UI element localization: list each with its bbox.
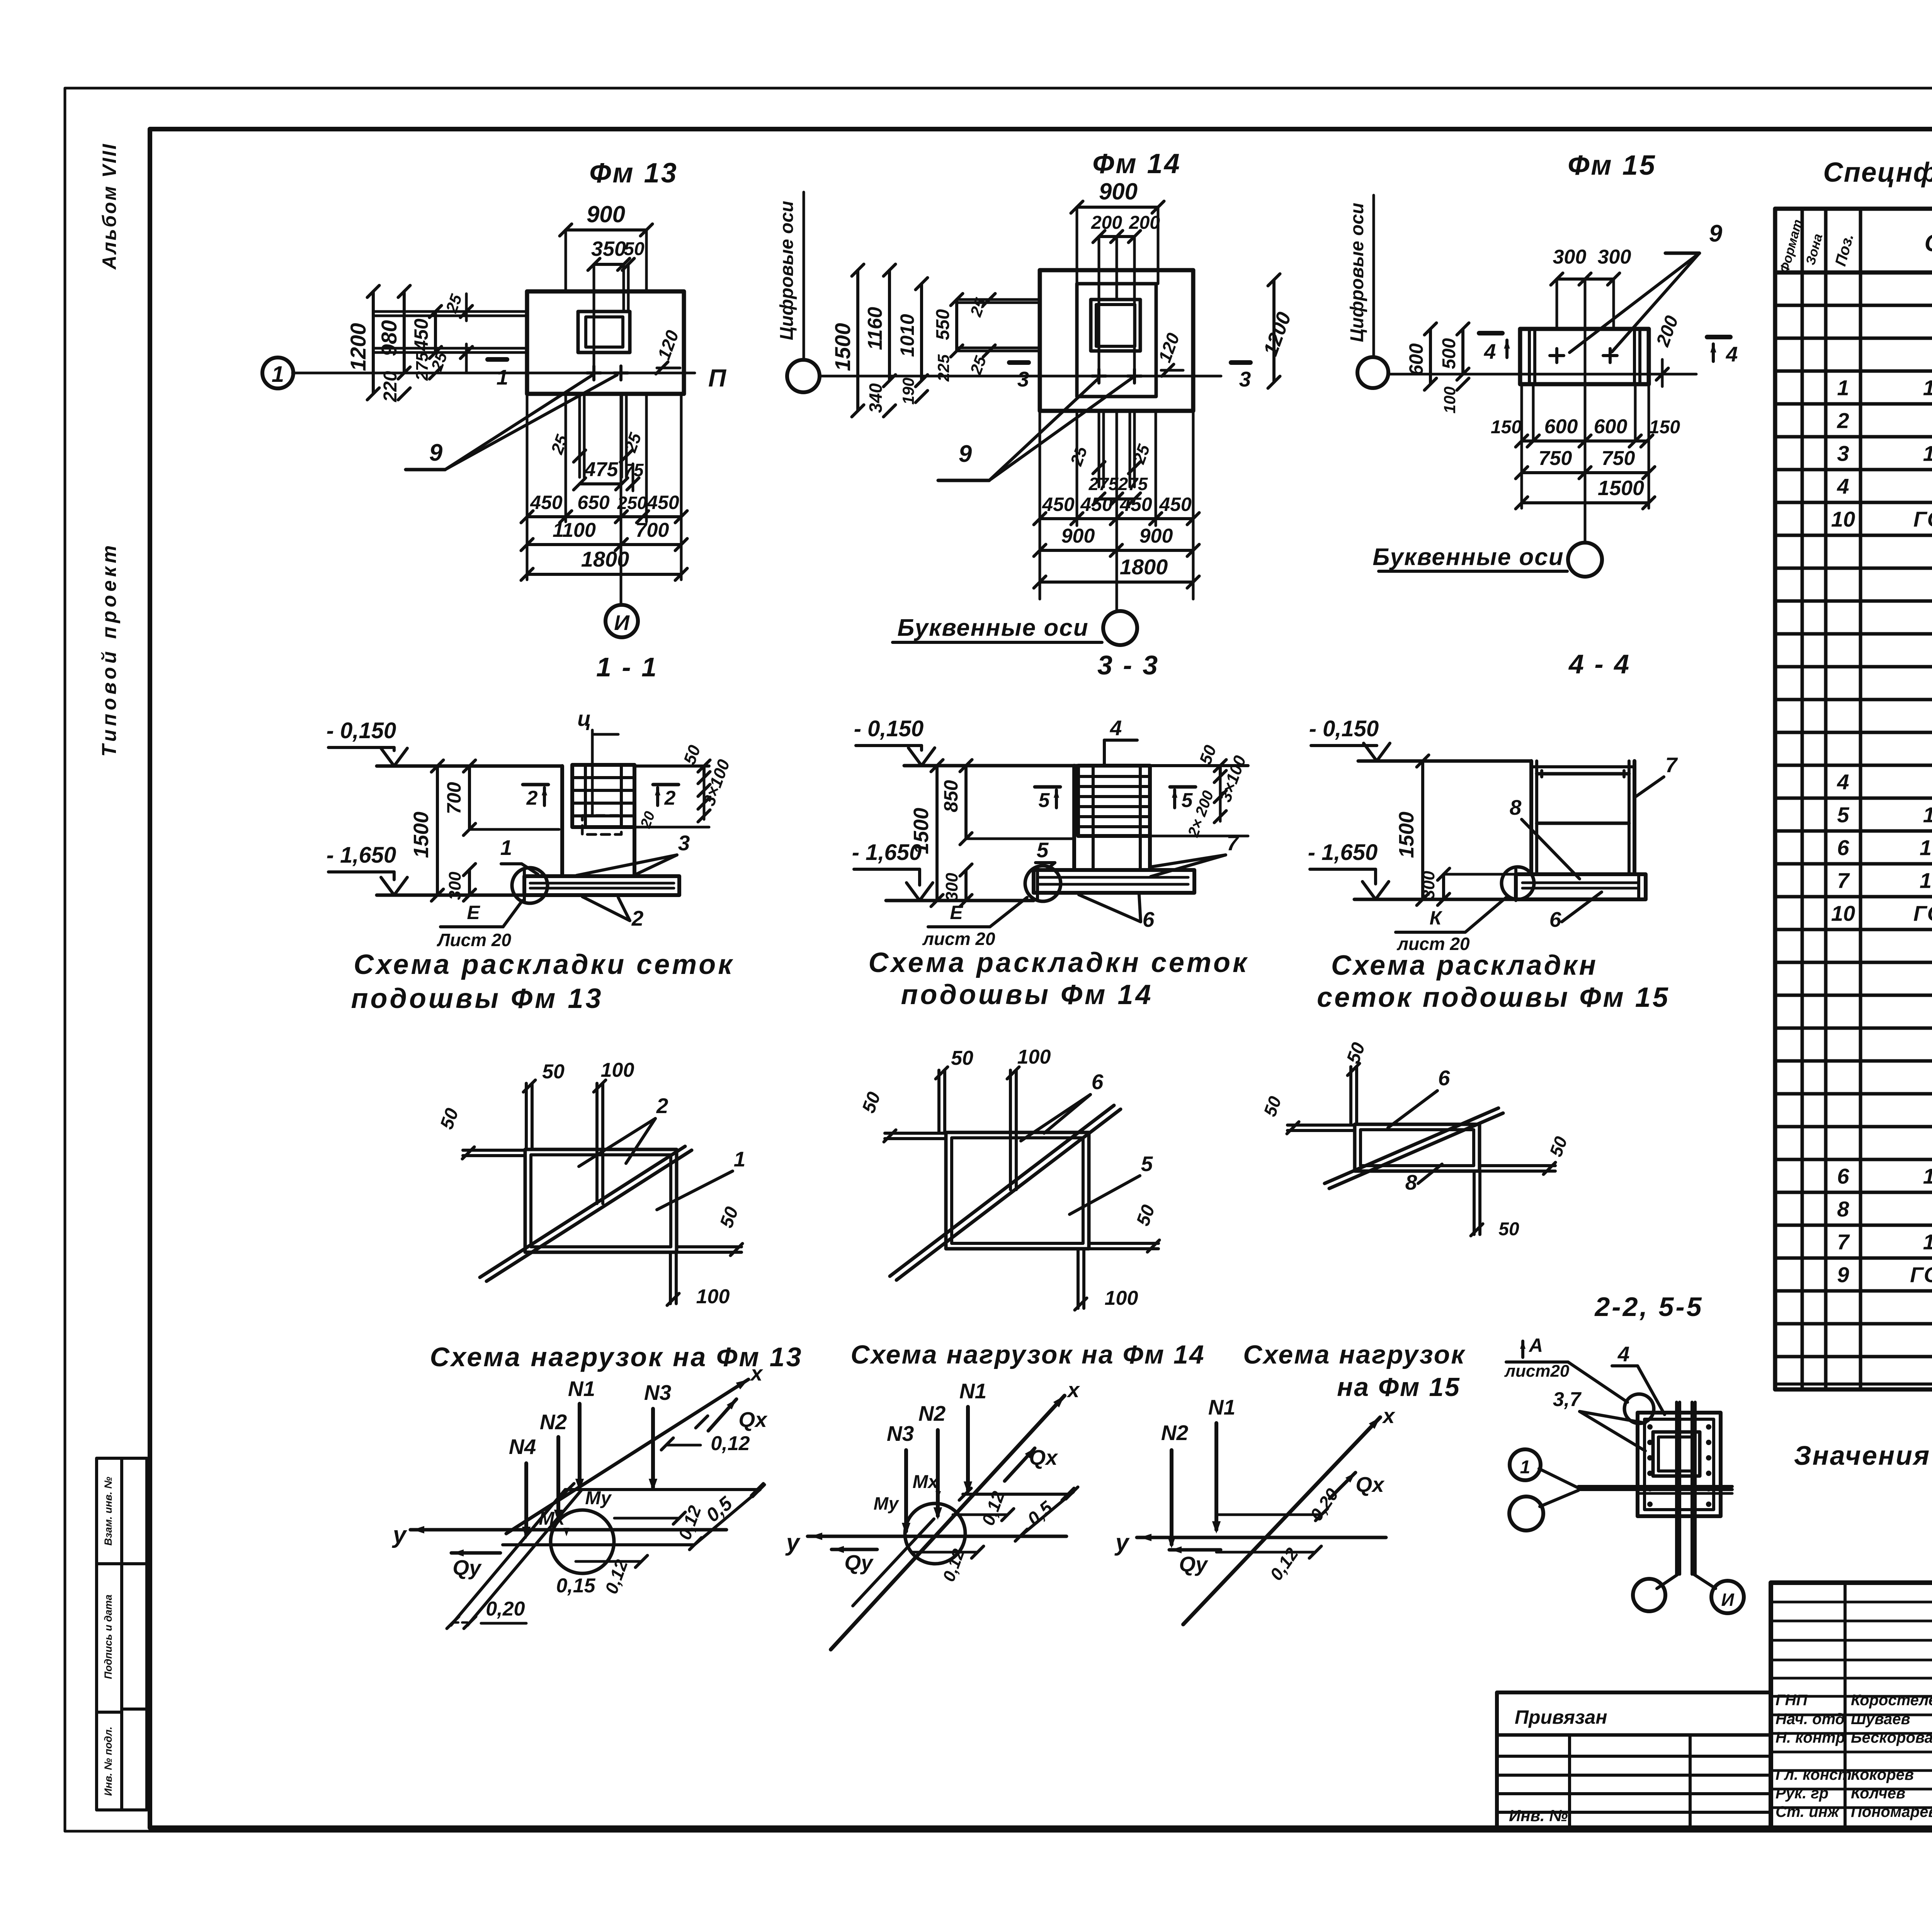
svg-text:2: 2: [656, 1094, 668, 1118]
svg-text:Фм 14: Фм 14: [1092, 148, 1181, 179]
svg-text:- 0,150: - 0,150: [854, 716, 924, 741]
svg-text:3: 3: [1837, 441, 1849, 466]
mesh layout Fm14 rectangle: [946, 1132, 1089, 1249]
svg-text:7: 7: [1227, 831, 1240, 855]
svg-text:980: 980: [377, 320, 401, 356]
svg-text:Значения усилий М, N, О: Значения усилий М, N, О смотреть на лист…: [1794, 1440, 1932, 1471]
section 3-3 dashed box: [1093, 827, 1140, 836]
plan Fm13 axis circle I: [605, 605, 638, 637]
load scheme Fm13 moment circle: [551, 1510, 614, 1573]
svg-text:220: 220: [380, 371, 401, 402]
plan Fm15 horizontal axis: [1389, 373, 1696, 376]
section 1-1 node circle: [512, 868, 548, 903]
svg-text:Альбом VIII: Альбом VIII: [99, 143, 120, 270]
svg-text:700: 700: [636, 519, 669, 541]
svg-text:Коростелев: Коростелев: [1851, 1692, 1932, 1709]
svg-text:900: 900: [1099, 179, 1138, 204]
load scheme Fm15 Qy arrow: [1169, 1548, 1221, 1552]
svg-text:150: 150: [1649, 417, 1680, 438]
svg-text:1.410 - 3 вып. 1: 1.410 - 3 вып. 1: [1923, 1164, 1932, 1188]
svg-text:7: 7: [1837, 1230, 1850, 1254]
svg-text:Qх: Qх: [1029, 1445, 1058, 1469]
svg-text:Qу: Qу: [452, 1556, 482, 1580]
svg-text:4: 4: [1617, 1342, 1630, 1366]
mesh layout Fm13 rectangle: [525, 1149, 677, 1252]
plan Fm14 vertical axis: [1116, 411, 1118, 610]
load scheme Fm15 y axis: [1137, 1536, 1386, 1539]
svg-text:750: 750: [1539, 447, 1572, 470]
svg-text:900: 900: [1061, 525, 1095, 547]
mesh layout Fm14 right bars: [1089, 1242, 1158, 1245]
svg-text:1.410 - 3 вып. 1: 1.410 - 3 вып. 1: [1923, 441, 1932, 466]
svg-text:225: 225: [934, 354, 952, 382]
svg-text:6: 6: [1143, 907, 1155, 931]
svg-text:х: х: [1066, 1378, 1080, 1402]
svg-text:200: 200: [1129, 213, 1160, 233]
load scheme Fm13 x axis: [506, 1379, 748, 1534]
svg-text:600: 600: [1594, 415, 1628, 438]
svg-text:700: 700: [443, 782, 465, 814]
plan Fm14 below-rect extension lines: [1098, 411, 1100, 487]
svg-text:1500: 1500: [910, 808, 933, 854]
svg-text:Qх: Qх: [738, 1408, 768, 1432]
svg-text:100: 100: [601, 1059, 634, 1081]
svg-text:350: 350: [591, 237, 626, 260]
mesh layout Fm13 top-left bars: [525, 1083, 528, 1149]
load scheme Fm14 plate top edge: [963, 1493, 1070, 1496]
plan Fm15 axis circle left: [1357, 357, 1388, 388]
svg-text:Бескоровайный: Бескоровайный: [1851, 1729, 1932, 1746]
svg-text:Гл. конст: Гл. конст: [1776, 1766, 1852, 1783]
plan Fm14 bottom dim tier2: [1040, 549, 1193, 552]
title block left small table: [1497, 1692, 1771, 1828]
svg-text:750: 750: [1602, 447, 1635, 470]
svg-text:1160: 1160: [864, 307, 886, 350]
svg-text:Цифровые оси: Цифровые оси: [1347, 203, 1367, 342]
svg-text:- 0,150: - 0,150: [327, 718, 396, 743]
section 3-3 ground line: [904, 764, 1078, 768]
section 4-4 footing slab: [1516, 874, 1646, 899]
detail rebar dots: [1647, 1424, 1653, 1430]
svg-text:100: 100: [696, 1285, 730, 1308]
svg-text:- 0,150: - 0,150: [1309, 716, 1379, 741]
svg-text:Схема раскладкн: Схема раскладкн: [1331, 950, 1598, 981]
load scheme Fm13 plate right edge: [694, 1490, 760, 1545]
detail node circle top: [1624, 1394, 1654, 1423]
mesh layout Fm14 top-mid bars: [1009, 1070, 1012, 1190]
svg-text:ГОСТ 24379.1 - 80: ГОСТ 24379.1 - 80: [1910, 1263, 1932, 1287]
plan Fm13 bottom dim tier3: [527, 573, 681, 576]
svg-text:450: 450: [1159, 494, 1192, 515]
svg-text:4: 4: [1837, 474, 1849, 499]
plan Fm14 horizontal axis: [820, 375, 1221, 378]
svg-text:- 1,650: - 1,650: [327, 843, 396, 868]
load scheme Fm14 Qy arrow: [832, 1548, 877, 1551]
svg-text:на Фм 15: на Фм 15: [1337, 1372, 1461, 1402]
svg-text:9: 9: [1837, 1263, 1849, 1287]
svg-text:3: 3: [1017, 367, 1029, 391]
svg-text:50: 50: [1498, 1219, 1519, 1239]
svg-text:9: 9: [1709, 220, 1723, 247]
plan Fm15 section mark 4 left: [1479, 331, 1502, 335]
svg-text:N2: N2: [918, 1401, 946, 1425]
section 3-3 bottom ground line: [886, 899, 1034, 902]
svg-text:7: 7: [1837, 868, 1850, 893]
svg-text:4: 4: [1726, 342, 1738, 366]
load scheme Fm14 dim 0.12 upper: [953, 1514, 1008, 1516]
plan Fm14 mesh extension lines left: [958, 298, 1040, 301]
plan Fm14 axis circle left: [787, 360, 820, 392]
svg-text:подошвы Фм 13: подошвы Фм 13: [351, 983, 603, 1014]
section 1-1 right extension lines: [634, 764, 709, 768]
svg-text:0,15: 0,15: [556, 1575, 595, 1597]
svg-text:300: 300: [1419, 871, 1438, 899]
svg-text:275: 275: [1088, 474, 1119, 494]
svg-text:300: 300: [1598, 246, 1631, 268]
section 3-3 pedestal outline: [1072, 766, 1076, 870]
svg-text:Шуваев: Шуваев: [1851, 1711, 1910, 1728]
svg-text:Фм 15: Фм 15: [1568, 150, 1656, 181]
svg-text:Схема раскладкн сеток: Схема раскладкн сеток: [869, 947, 1249, 978]
svg-text:4: 4: [1110, 716, 1122, 740]
svg-text:450: 450: [1119, 494, 1152, 515]
svg-text:300: 300: [942, 873, 961, 901]
svg-text:150: 150: [1491, 417, 1522, 438]
svg-text:190: 190: [899, 378, 917, 405]
plan Fm15 bottom dim tier2: [1522, 471, 1649, 474]
svg-text:4: 4: [1484, 339, 1496, 363]
svg-text:1200: 1200: [346, 323, 370, 371]
svg-text:у: у: [1114, 1529, 1130, 1556]
plan Fm15 bottom dim tier1: [1522, 439, 1647, 443]
svg-text:у: у: [785, 1529, 801, 1556]
svg-text:4: 4: [1837, 770, 1849, 794]
svg-text:50: 50: [542, 1061, 565, 1083]
svg-text:275: 275: [1118, 474, 1148, 494]
section 4-4 ground line: [1358, 759, 1531, 763]
svg-text:450: 450: [410, 318, 432, 351]
svg-text:Типовой проект: Типовой проект: [98, 542, 121, 757]
mesh layout Fm13 bottom bars: [669, 1252, 672, 1304]
svg-text:Привязан: Привязан: [1515, 1706, 1607, 1728]
load scheme Fm13 dim 0.12 on x: [661, 1438, 673, 1450]
svg-text:650: 650: [577, 492, 610, 513]
svg-text:- 1,650: - 1,650: [1308, 840, 1378, 865]
svg-text:А: А: [1528, 1335, 1543, 1356]
left margin stamp boxes: [97, 1458, 147, 1810]
svg-text:8: 8: [1510, 795, 1522, 819]
svg-text:К: К: [1430, 907, 1443, 929]
svg-text:N3: N3: [644, 1381, 671, 1405]
svg-text:475: 475: [584, 458, 619, 481]
plan Fm14 upper step outline: [1077, 284, 1156, 397]
plan Fm14 section mark 3 left: [1009, 360, 1029, 365]
svg-text:9: 9: [959, 441, 972, 467]
svg-text:Схема нагрузок: Схема нагрузок: [1243, 1340, 1466, 1369]
svg-text:500: 500: [1439, 338, 1459, 369]
svg-text:N3: N3: [887, 1422, 914, 1445]
svg-text:900: 900: [587, 201, 625, 227]
mesh layout Fm15 left bars: [1287, 1124, 1355, 1127]
svg-text:100: 100: [1440, 386, 1459, 414]
svg-text:Схема раскладки сеток: Схема раскладки сеток: [354, 949, 734, 980]
section 3-3 node circle: [1025, 866, 1061, 901]
svg-text:2: 2: [526, 787, 538, 809]
load scheme Fm15 Qx arrow: [1330, 1473, 1355, 1498]
svg-text:6: 6: [1837, 836, 1849, 860]
svg-text:Е: Е: [950, 902, 963, 923]
svg-text:Нач. отд: Нач. отд: [1776, 1711, 1845, 1728]
svg-text:2: 2: [664, 787, 676, 809]
svg-text:1800: 1800: [1120, 555, 1168, 579]
section 1-1 bottom ground line: [377, 894, 524, 897]
svg-text:10: 10: [1831, 507, 1855, 531]
section 1-1 ground line: [377, 764, 562, 768]
svg-text:6: 6: [1438, 1066, 1450, 1090]
mesh layout Fm14 left bars: [885, 1132, 946, 1135]
svg-text:1.410 - 3 вып. 1: 1.410 - 3 вып. 1: [1923, 376, 1932, 400]
section 4-4 pedestal walls: [1529, 761, 1533, 874]
plan Fm14 right dim 1200: [1272, 280, 1276, 382]
svg-text:3 - 3: 3 - 3: [1097, 650, 1159, 680]
svg-text:подошвы Фм 14: подошвы Фм 14: [901, 979, 1153, 1010]
plan Fm13 bottom dim tier1: [526, 394, 529, 580]
detail vertical bolt bars: [1675, 1402, 1678, 1574]
plan Fm13 left dims: [372, 291, 375, 394]
load scheme Fm13 y axis: [410, 1528, 726, 1532]
svg-text:лист20: лист20: [1504, 1362, 1570, 1381]
section 1-1 anchor ladder box: [572, 765, 634, 827]
mesh layout Fm15 right bars: [1480, 1164, 1555, 1167]
svg-text:лист 20: лист 20: [922, 929, 995, 949]
svg-text:4 - 4: 4 - 4: [1568, 649, 1631, 679]
svg-text:ГНП: ГНП: [1776, 1692, 1808, 1709]
svg-text:5: 5: [1182, 789, 1193, 812]
plan Fm14 top dims: [1076, 207, 1078, 284]
svg-text:Е: Е: [467, 902, 480, 923]
svg-text:2: 2: [1837, 409, 1849, 433]
svg-text:450: 450: [530, 492, 563, 513]
load scheme Fm13 Qy arrow: [451, 1551, 500, 1555]
svg-text:1 - 1: 1 - 1: [596, 652, 658, 682]
plan Fm15 section mark 4 right: [1707, 335, 1730, 339]
svg-text:600: 600: [1544, 415, 1578, 438]
plan Fm13 horizontal axis: [293, 372, 695, 375]
svg-text:Буквенные оси: Буквенные оси: [1372, 544, 1564, 570]
mesh layout Fm14 diagonal mesh edge: [896, 1109, 1121, 1280]
svg-text:600: 600: [1405, 343, 1427, 376]
load scheme Fm13 Qx arrow: [708, 1399, 736, 1431]
mesh layout Fm15 top bars: [1349, 1067, 1352, 1124]
svg-text:1500: 1500: [830, 323, 855, 371]
mesh layout Fm15 rectangle: [1355, 1124, 1480, 1171]
svg-text:Обозначение: Обозначение: [1924, 230, 1932, 257]
section 3-3 mesh mark 5 left: [1035, 785, 1060, 789]
svg-text:0,20: 0,20: [486, 1598, 525, 1620]
load scheme Fm13 inner dim lines: [614, 1517, 679, 1520]
svg-text:Колчев: Колчев: [1851, 1785, 1905, 1802]
svg-text:100: 100: [1017, 1046, 1051, 1068]
svg-text:х: х: [1382, 1404, 1396, 1428]
svg-text:2: 2: [631, 906, 644, 930]
svg-text:N1: N1: [1208, 1395, 1235, 1419]
load scheme Fm13 plate bottom edge: [503, 1543, 694, 1546]
svg-text:5: 5: [1037, 838, 1049, 862]
plan Fm14 dim 275 275: [1099, 497, 1134, 501]
svg-text:Цифровые оси: Цифровые оси: [777, 201, 797, 340]
svg-text:900: 900: [1139, 525, 1173, 547]
svg-text:Му: Му: [874, 1493, 900, 1514]
plan Fm14 bottom dim tier1: [1039, 411, 1041, 599]
svg-text:8: 8: [1405, 1170, 1417, 1194]
svg-text:Лист 20: Лист 20: [437, 930, 512, 950]
detail column section squares: [1638, 1413, 1721, 1516]
svg-text:1500: 1500: [1395, 812, 1418, 858]
plan Fm14 bottom dim tier3: [1040, 581, 1193, 584]
svg-text:1: 1: [497, 365, 509, 389]
section 3-3 mesh mark 5 right: [1170, 785, 1196, 789]
section 1-1 dashed box: [582, 815, 621, 834]
svg-text:10: 10: [1831, 901, 1855, 926]
section 4-4 mesh lines inside: [1537, 772, 1629, 776]
svg-text:у: у: [392, 1522, 408, 1548]
svg-text:1500: 1500: [410, 812, 433, 858]
svg-text:Кокорев: Кокорев: [1851, 1766, 1914, 1783]
load scheme Fm15 dim 0.20: [1216, 1514, 1321, 1516]
svg-text:Инв. № подл.: Инв. № подл.: [102, 1726, 114, 1796]
svg-text:Мх: Мх: [913, 1472, 939, 1492]
svg-text:6: 6: [1837, 1164, 1849, 1188]
mesh layout Fm15 diagonal mesh edge: [1329, 1113, 1503, 1188]
svg-text:Буквенные оси: Буквенные оси: [897, 615, 1088, 641]
svg-text:5: 5: [1039, 789, 1050, 812]
svg-text:5: 5: [1837, 803, 1849, 827]
svg-text:N2: N2: [540, 1410, 567, 1434]
svg-text:1: 1: [500, 836, 512, 860]
svg-text:3: 3: [1239, 367, 1251, 391]
svg-text:Qу: Qу: [844, 1551, 874, 1575]
svg-text:3,7: 3,7: [1553, 1388, 1582, 1411]
plan Fm13 bottom dim tier2: [527, 543, 681, 546]
specification table grid: [1775, 209, 1932, 1389]
title block signature grid: [1771, 1601, 1932, 1604]
svg-text:340: 340: [866, 383, 886, 413]
mesh layout Fm13 right bars: [677, 1245, 742, 1248]
section 1-1 footing slab: [524, 876, 679, 895]
svg-text:Схема нагрузок на Фм 13: Схема нагрузок на Фм 13: [430, 1342, 803, 1372]
svg-text:250: 250: [617, 493, 647, 513]
plan Fm14 anchor crosses: [1092, 375, 1106, 378]
svg-text:1500: 1500: [1598, 477, 1644, 500]
svg-text:300: 300: [446, 872, 464, 900]
svg-text:Подпись и дата: Подпись и дата: [102, 1595, 114, 1679]
section 3-3 anchor ladder box: [1078, 766, 1150, 836]
svg-text:сеток подошвы Фм 15: сеток подошвы Фм 15: [1317, 982, 1670, 1013]
section 1-1 left dims: [436, 766, 439, 895]
svg-text:ц: ц: [577, 707, 591, 730]
svg-text:П: П: [708, 364, 727, 392]
load scheme Fm14 Qx arrow: [1005, 1448, 1035, 1481]
section 1-1 pedestal outline: [560, 766, 564, 876]
plan Fm15 left dims: [1429, 329, 1432, 384]
plan Fm14 left dims: [856, 270, 859, 411]
svg-text:N4: N4: [509, 1435, 536, 1459]
mesh layout Fm13 left bars: [463, 1149, 525, 1152]
svg-text:450: 450: [1042, 494, 1075, 515]
svg-text:5: 5: [1141, 1152, 1153, 1176]
svg-text:2-2, 5-5: 2-2, 5-5: [1594, 1292, 1703, 1322]
plan Fm15 footing outline: [1520, 329, 1649, 384]
plan Fm15 vertical axis: [1584, 329, 1587, 543]
svg-text:1.410 - 3 вып. 1: 1.410 - 3 вып. 1: [1923, 803, 1932, 827]
svg-text:450: 450: [646, 492, 679, 513]
svg-text:200: 200: [1091, 213, 1122, 233]
svg-text:Рук. гр: Рук. гр: [1776, 1785, 1828, 1802]
svg-text:Фм 13: Фм 13: [589, 158, 678, 189]
svg-text:Му: Му: [585, 1488, 612, 1508]
plan Fm13 anchor plate: [578, 312, 630, 352]
svg-text:300: 300: [1553, 246, 1587, 268]
svg-text:Н. контр: Н. контр: [1776, 1729, 1845, 1746]
plan Fm13 anchor crosses: [587, 371, 601, 375]
load scheme Fm14 plate right edge: [1020, 1492, 1073, 1536]
plan Fm13 mesh extension lines left: [375, 310, 527, 313]
section 3-3 footing slab: [1034, 870, 1194, 893]
svg-text:Схема нагрузок на Фм 14: Схема нагрузок на Фм 14: [850, 1340, 1205, 1369]
section 3-3 right extension lines: [1150, 764, 1248, 767]
title block outline: [1771, 1583, 1932, 1828]
svg-text:ГОСТ 24379.1- 80: ГОСТ 24379.1- 80: [1913, 507, 1932, 531]
load scheme Fm13 left rails: [451, 1490, 565, 1625]
svg-text:Инв. №: Инв. №: [1509, 1806, 1568, 1825]
plan Fm13 axis circle 1: [262, 358, 293, 388]
svg-text:9: 9: [429, 439, 443, 466]
section 1-1 mesh mark 2 left: [523, 783, 548, 787]
svg-text:х: х: [750, 1361, 764, 1385]
plan Fm15 top dims: [1556, 279, 1558, 329]
detail axis circle empty: [1509, 1496, 1543, 1531]
plan Fm15 bottom dim tier3: [1522, 501, 1649, 504]
section 4-4 left dims: [1421, 761, 1424, 899]
svg-text:N2: N2: [1161, 1421, 1189, 1445]
load scheme Fm14 dim 0.12 lower: [912, 1551, 978, 1554]
svg-text:1: 1: [1837, 376, 1849, 400]
svg-text:Qх: Qх: [1355, 1473, 1385, 1496]
detail axis circle 1: [1510, 1449, 1541, 1480]
svg-text:Взам. инв. №: Взам. инв. №: [102, 1477, 114, 1546]
svg-text:6: 6: [1549, 907, 1561, 931]
plan Fm14 anchor plate: [1091, 300, 1140, 351]
load scheme Fm14 y axis: [808, 1535, 1066, 1538]
section 4-4 node circle: [1502, 867, 1534, 899]
plan Fm13 dim 475 75: [580, 482, 622, 485]
mesh layout Fm14 bottom bars: [1077, 1249, 1080, 1308]
plan Fm15 below extension lines: [1520, 384, 1523, 508]
svg-text:550: 550: [933, 309, 953, 340]
plan Fm14 section mark 3 right: [1231, 360, 1250, 365]
svg-text:1: 1: [1520, 1457, 1531, 1478]
svg-text:1: 1: [272, 362, 284, 387]
svg-text:450: 450: [1080, 494, 1113, 515]
plan Fm15 bottom axis circle: [1568, 543, 1602, 577]
load scheme Fm14 x axis: [831, 1396, 1065, 1650]
plan Fm13 section mark 1 left: [488, 357, 507, 362]
mesh layout Fm15 bottom bars: [1473, 1171, 1476, 1234]
svg-text:N1: N1: [959, 1379, 986, 1403]
svg-text:0,12: 0,12: [711, 1432, 750, 1455]
plan Fm13 top dims: [565, 230, 567, 291]
section 1-1 mesh mark 2 right: [653, 783, 679, 787]
